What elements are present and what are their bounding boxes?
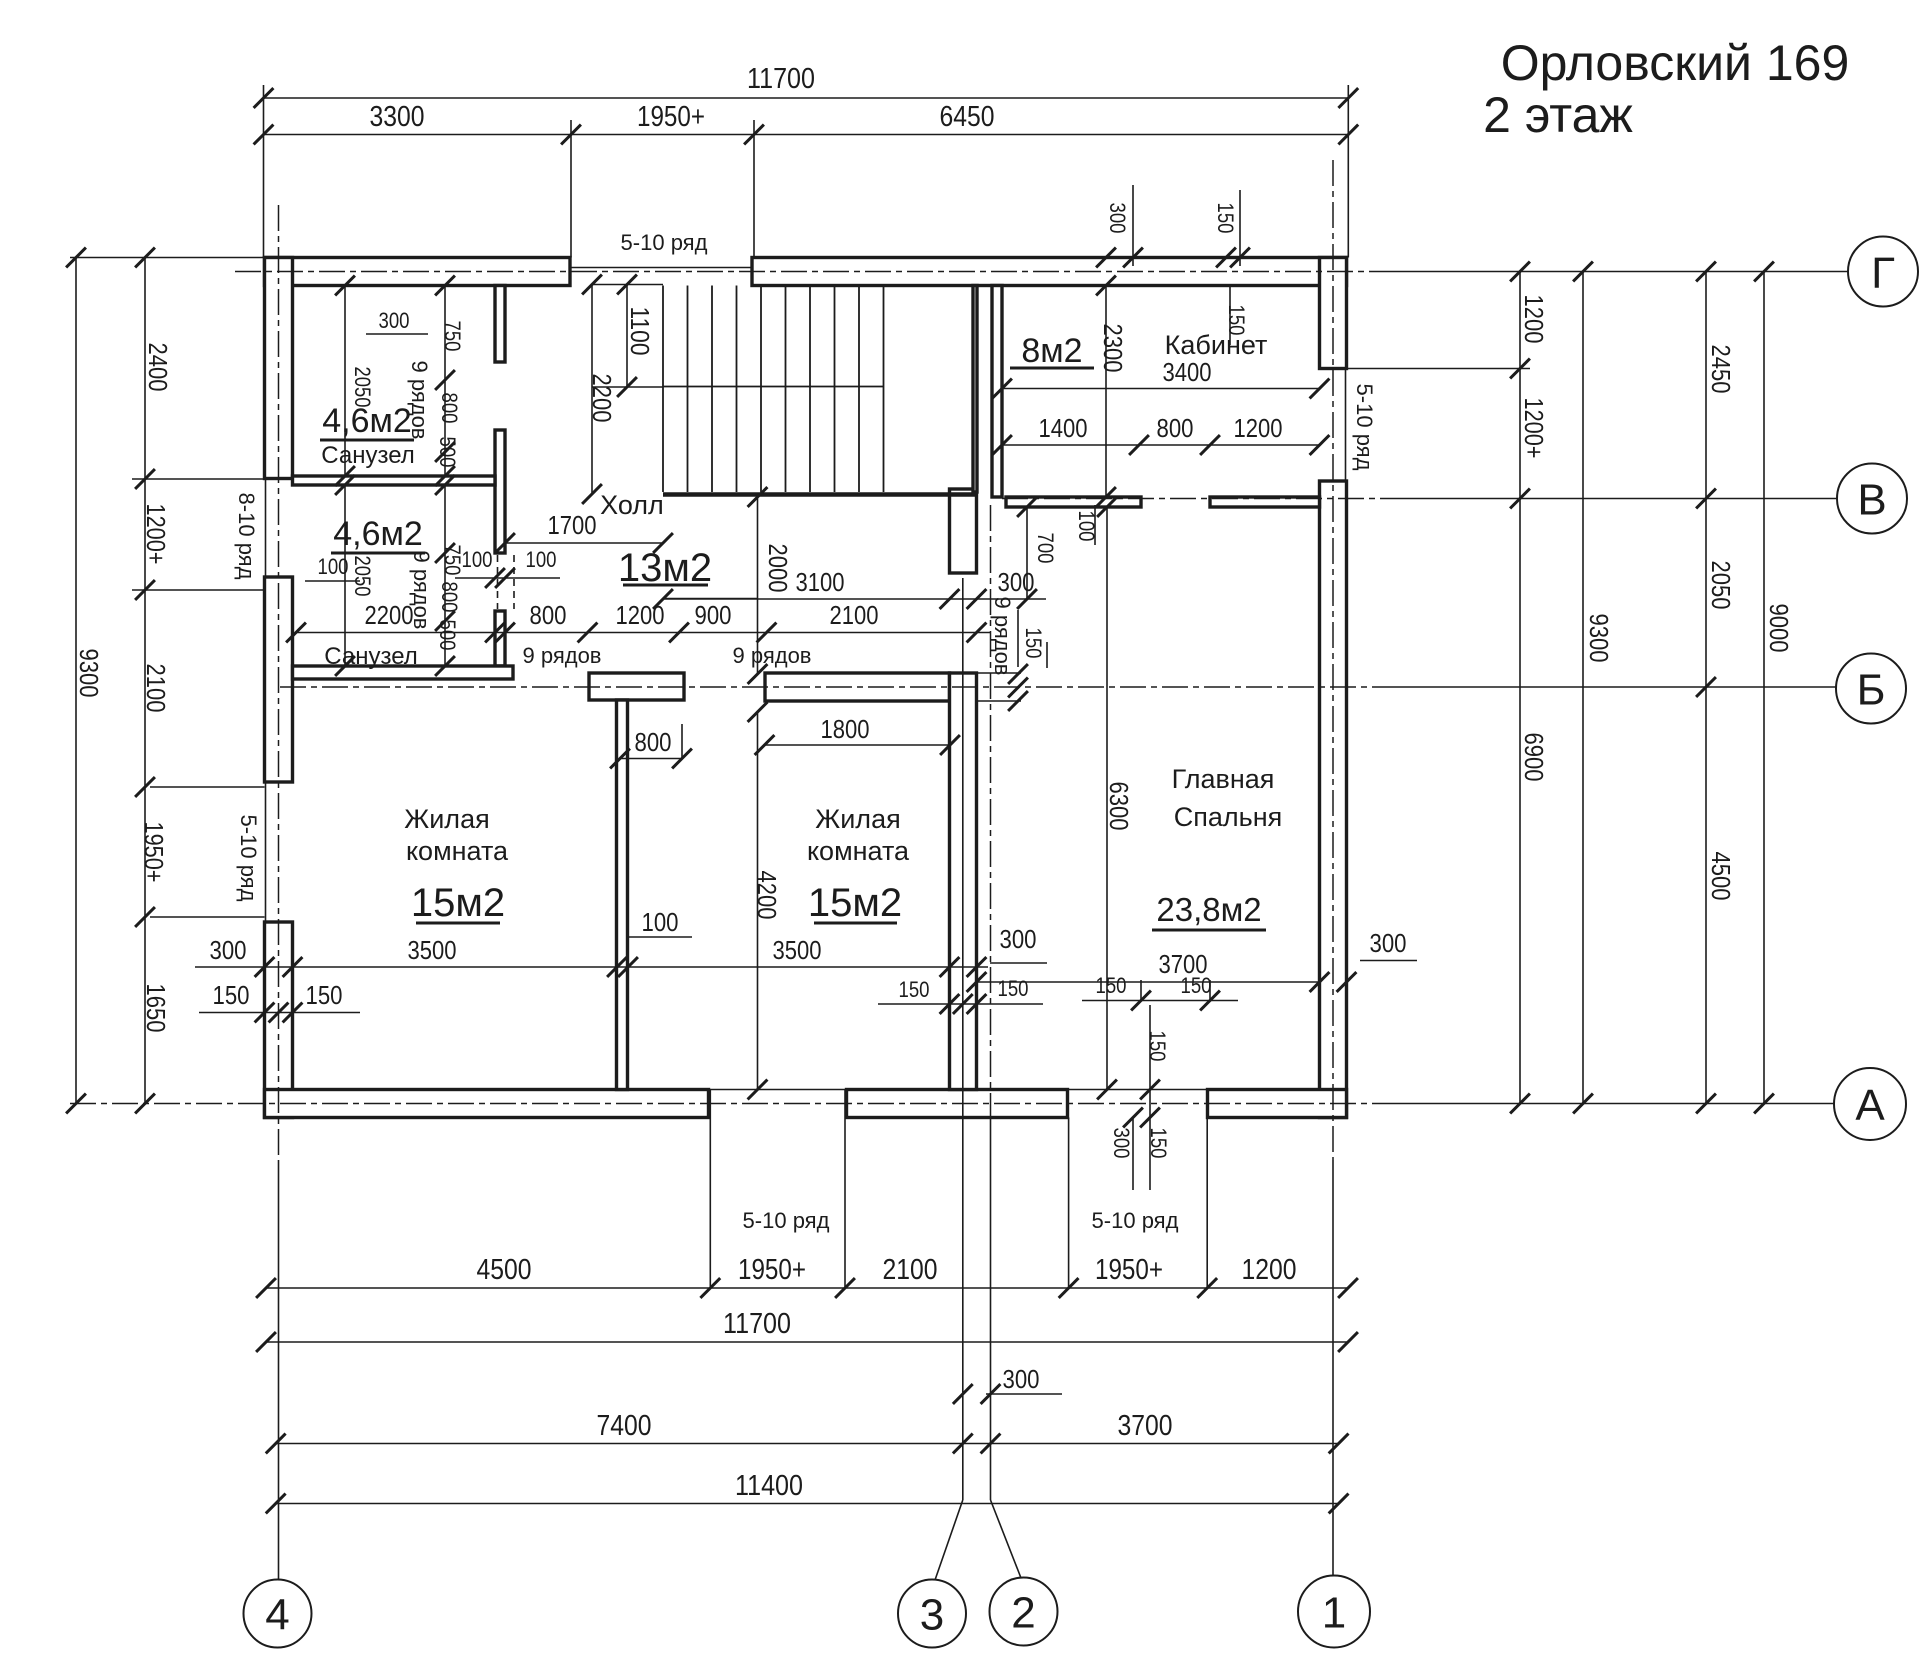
svg-text:2400: 2400	[143, 343, 173, 392]
svg-text:6450: 6450	[940, 101, 995, 133]
svg-text:Жилая: Жилая	[815, 804, 900, 834]
svg-text:1950+: 1950+	[637, 101, 705, 133]
svg-text:3100: 3100	[796, 567, 845, 597]
ticks at corridor door right of wall M	[1008, 664, 1028, 711]
dimension column 9000 right	[1754, 262, 1794, 1114]
dimension 750 lower bathroom door	[440, 545, 465, 576]
dimension 300 rotated below bottom wall	[1109, 1108, 1143, 1190]
svg-text:А: А	[1855, 1081, 1885, 1130]
svg-text:1200+: 1200+	[141, 504, 171, 565]
svg-text:4: 4	[265, 1591, 289, 1640]
window left wall lower	[265, 782, 267, 922]
extension line right 368	[1347, 368, 1531, 370]
wall cabinet bottom left segment	[1006, 497, 1141, 507]
label area 4,6м2 upper bathroom	[320, 402, 414, 440]
dimension row 7400 3700	[266, 1410, 1349, 1453]
svg-text:2050: 2050	[350, 556, 375, 597]
svg-text:100: 100	[642, 907, 679, 937]
svg-text:2100: 2100	[141, 664, 171, 713]
wall outer top-left segment	[265, 258, 571, 286]
svg-text:Кабинет: Кабинет	[1165, 330, 1268, 360]
dimension line bathroom column lower	[435, 475, 455, 676]
wall cabinet left	[992, 286, 1002, 498]
label комната room 1	[406, 836, 509, 866]
svg-text:4500: 4500	[477, 1254, 532, 1286]
svg-text:Холл: Холл	[600, 490, 664, 520]
label 5-10 ряд right	[1352, 384, 1377, 471]
svg-text:3500: 3500	[773, 935, 822, 965]
svg-text:150: 150	[899, 977, 930, 1002]
svg-text:2300: 2300	[1098, 324, 1128, 373]
svg-text:150: 150	[1146, 1128, 1171, 1159]
window top wall	[570, 267, 752, 269]
dimension row 3300 1950+ 6450	[254, 101, 1359, 144]
svg-text:1700: 1700	[548, 510, 597, 540]
svg-text:750: 750	[440, 321, 465, 352]
extension line bottom window left a	[709, 1090, 711, 1289]
label Холл	[600, 490, 664, 520]
svg-text:800: 800	[437, 393, 462, 424]
svg-text:800: 800	[437, 582, 462, 613]
axis leader to circle 2	[991, 1500, 1022, 1578]
wall outer left middle segment	[265, 577, 293, 782]
wall outer right lower segment	[1320, 481, 1347, 1118]
svg-text:3300: 3300	[370, 101, 425, 133]
dimension 800 room 2 door	[610, 724, 692, 768]
svg-text:комната: комната	[807, 836, 910, 866]
axis line 1 vertical dash-dot	[1332, 160, 1334, 1575]
dimension line bathroom column upper	[435, 276, 455, 486]
dimension 150 150 room 1 bottom	[199, 980, 360, 1022]
svg-text:5-10 ряд: 5-10 ряд	[1092, 1208, 1179, 1233]
label 150 rotated right of wall M	[1021, 628, 1047, 669]
dimension column 1200 1200+ 6900	[1510, 262, 1549, 1114]
dimension 750 upper bathroom door	[440, 321, 465, 352]
svg-text:150: 150	[1021, 628, 1046, 659]
svg-text:2100: 2100	[883, 1254, 938, 1286]
dimension column 9300 left	[66, 248, 104, 1114]
dimension 100 stem wall	[627, 907, 692, 937]
svg-text:Орловский 169: Орловский 169	[1501, 35, 1850, 91]
dimension 150 150 bedroom door	[1082, 973, 1238, 1010]
axis circle 4	[244, 1580, 312, 1648]
svg-text:500: 500	[435, 437, 460, 468]
svg-text:2450: 2450	[1706, 345, 1736, 394]
wall stairwell right	[973, 286, 977, 493]
wall between bathrooms	[293, 476, 496, 485]
extension line top-left corner	[263, 85, 265, 258]
svg-text:5-10 ряд: 5-10 ряд	[236, 815, 261, 902]
svg-text:8-10 ряд: 8-10 ряд	[234, 493, 259, 580]
extension line bottom window left b	[844, 1090, 846, 1289]
svg-text:1200+: 1200+	[1519, 398, 1549, 459]
label area 15м2 room 2	[808, 881, 902, 925]
dimension 150 above top wall	[1213, 190, 1250, 267]
svg-text:Б: Б	[1857, 666, 1886, 715]
wall outer bottom-right segment	[1208, 1090, 1347, 1118]
axis leader to circle 3	[935, 1500, 963, 1580]
window bottom wall left	[709, 1089, 847, 1091]
svg-text:В: В	[1857, 476, 1886, 525]
wall bathroom right upper segment	[495, 286, 505, 363]
label Главная	[1172, 764, 1275, 794]
label Санузел upper	[321, 442, 415, 469]
svg-text:100: 100	[526, 547, 557, 572]
label 9 рядов lower	[409, 550, 434, 629]
dimension 1800 room 2 top	[755, 714, 960, 755]
svg-text:100: 100	[462, 547, 493, 572]
svg-text:3500: 3500	[408, 935, 457, 965]
window right wall	[1345, 369, 1347, 482]
svg-text:1200: 1200	[1242, 1254, 1297, 1286]
svg-text:5-10 ряд: 5-10 ряд	[743, 1208, 830, 1233]
svg-text:11400: 11400	[735, 1470, 803, 1502]
svg-text:300: 300	[379, 308, 410, 333]
svg-text:Главная: Главная	[1172, 764, 1275, 794]
label area 4,6м2 lower bathroom	[331, 515, 425, 553]
svg-text:8м2: 8м2	[1021, 332, 1082, 370]
extension line left 787	[150, 786, 265, 788]
dimension 100 100 at bathroom door	[455, 547, 560, 588]
axis line 2 vertical dash-dot	[990, 505, 992, 1500]
dimension 150 inside cabinet	[1224, 286, 1249, 346]
dimension column 2450 2050 4500	[1696, 262, 1736, 1114]
label area 8м2 cabinet	[1010, 332, 1094, 370]
dimension 1700 hall	[495, 510, 673, 553]
wall stem between living rooms	[617, 700, 628, 1090]
wall bathroom-2 bottom	[293, 666, 514, 679]
svg-text:1100: 1100	[625, 307, 655, 356]
dimension line rooms 3500 row	[195, 957, 988, 977]
wall corridor edge extension right of wall M	[977, 673, 1022, 701]
wall bathroom right middle segment	[495, 430, 505, 553]
dimension 150 rotated bedroom bottom	[1140, 1005, 1170, 1190]
axis circle 1	[1298, 1576, 1370, 1648]
extension line bottom window right a	[1068, 1118, 1070, 1289]
svg-text:комната: комната	[406, 836, 509, 866]
svg-text:Санузел: Санузел	[324, 643, 418, 670]
axis line 4 vertical dash-dot	[278, 205, 280, 1579]
extension line left 590	[132, 589, 265, 591]
wall outer left lower segment	[265, 922, 293, 1118]
svg-text:2100: 2100	[830, 600, 879, 630]
dimension 2050 lower bathroom	[335, 475, 375, 676]
window left wall upper	[265, 479, 267, 578]
svg-text:300: 300	[1370, 928, 1407, 958]
wall stairs bottom	[663, 492, 977, 497]
dimension 4200 room 2 vertical	[748, 702, 782, 1099]
label area 23,8м2 bedroom	[1152, 891, 1266, 930]
dimension 1100 stairs	[617, 275, 655, 397]
dimension 300 bedroom left	[990, 924, 1047, 963]
svg-text:1200: 1200	[1234, 413, 1283, 443]
svg-text:9 рядов: 9 рядов	[522, 643, 601, 668]
label area 13м2 hall	[618, 546, 712, 590]
svg-text:300: 300	[998, 567, 1035, 597]
window bottom wall right	[1068, 1089, 1208, 1091]
dimension 2000 hall vertical	[663, 487, 793, 684]
extension line top window left	[570, 120, 572, 258]
svg-text:100: 100	[318, 554, 349, 579]
dimension 1400 800 1200 cabinet	[992, 413, 1329, 455]
axis circle В	[1837, 464, 1907, 534]
dimension 300 in upper bathroom	[366, 308, 428, 334]
title 2 этаж	[1483, 87, 1633, 143]
svg-text:2000: 2000	[763, 544, 793, 593]
wall T-chunk at hall	[589, 673, 684, 700]
extension line top-right corner	[1347, 85, 1349, 258]
svg-text:2050: 2050	[1706, 561, 1736, 610]
svg-text:9300: 9300	[1584, 614, 1614, 663]
dimension 3700 bedroom	[967, 949, 1357, 992]
label 5-10 ряд left	[236, 815, 261, 902]
svg-text:150: 150	[998, 976, 1029, 1001]
svg-text:7400: 7400	[597, 1410, 652, 1442]
axis circle А	[1834, 1068, 1906, 1140]
svg-text:5-10 ряд: 5-10 ряд	[1352, 384, 1377, 471]
axis line 3 vertical extension	[962, 578, 964, 1500]
svg-text:3400: 3400	[1163, 357, 1212, 387]
dimension row 2200 800 1200 900 2100 hall	[286, 600, 991, 642]
wall cabinet bottom right segment	[1210, 497, 1320, 507]
extension line left 917	[150, 916, 265, 918]
axis line Б horizontal dash-dot	[280, 686, 1836, 688]
svg-text:9 рядов: 9 рядов	[990, 596, 1015, 675]
svg-text:4,6м2: 4,6м2	[322, 402, 412, 440]
svg-text:1800: 1800	[821, 714, 870, 744]
svg-text:2 этаж: 2 этаж	[1483, 87, 1633, 143]
dimension 300 bedroom right	[1360, 928, 1417, 961]
svg-text:800: 800	[1157, 413, 1194, 443]
dimension 6300 bedroom vertical	[1097, 497, 1134, 1099]
svg-text:11700: 11700	[747, 63, 815, 95]
dimension 800 lower	[437, 582, 462, 613]
dimension 3500 room 1	[408, 935, 457, 965]
dimension 100 cabinet door	[1074, 505, 1099, 545]
door leaf dashes bathroom	[498, 555, 515, 609]
svg-text:23,8м2: 23,8м2	[1156, 891, 1261, 928]
svg-text:800: 800	[635, 727, 672, 757]
svg-text:1400: 1400	[1039, 413, 1088, 443]
wall outer right upper segment	[1320, 258, 1347, 369]
extension line bottom window right b	[1206, 1118, 1208, 1289]
wall outer left upper segment	[265, 258, 293, 479]
svg-text:900: 900	[695, 600, 732, 630]
svg-text:3700: 3700	[1118, 1410, 1173, 1442]
label 5-10 ряд bottom right	[1092, 1208, 1179, 1233]
label 9 рядов rotated right of wall M	[990, 596, 1018, 675]
svg-text:300: 300	[1105, 203, 1130, 234]
svg-text:1: 1	[1322, 1589, 1346, 1638]
dimension 2300 cabinet vertical	[1096, 276, 1128, 507]
axis line В horizontal dash-dot	[1002, 498, 1837, 500]
wall outer top-right segment	[752, 258, 1347, 286]
dimension 100 between bathrooms	[305, 554, 360, 581]
svg-text:1950+: 1950+	[738, 1254, 806, 1286]
svg-text:6900: 6900	[1519, 733, 1549, 782]
dimension 3400 cabinet	[992, 357, 1329, 398]
dimension 2200 bathroom width	[365, 600, 414, 630]
svg-text:13м2: 13м2	[618, 546, 712, 590]
dimension 700 cabinet door	[1033, 533, 1058, 564]
dimension 500 lower	[435, 620, 460, 651]
svg-text:1950+: 1950+	[139, 822, 169, 883]
axis circle Г	[1848, 237, 1918, 307]
dimension 2200 stairs	[582, 275, 617, 504]
wall middle upper chunk	[950, 489, 977, 573]
label area 15м2 room 1	[411, 881, 505, 925]
svg-text:9300: 9300	[74, 649, 104, 698]
svg-text:9 рядов: 9 рядов	[732, 643, 811, 668]
label Кабинет	[1165, 330, 1268, 360]
wall bathroom right lower segment	[495, 611, 505, 666]
label 9 рядов hall right	[732, 643, 811, 668]
dimension column 2400 1200+ 2100 1950+ 1650	[135, 248, 173, 1114]
label 150 rotated below bottom wall	[1146, 1128, 1171, 1159]
svg-text:150: 150	[306, 980, 343, 1010]
svg-text:4500: 4500	[1706, 852, 1736, 901]
dimension 300 above top wall	[1096, 185, 1143, 267]
svg-text:9000: 9000	[1764, 604, 1794, 653]
extension line left top	[70, 257, 265, 259]
wall outer bottom-left segment	[265, 1090, 709, 1118]
svg-text:9 рядов: 9 рядов	[407, 360, 432, 439]
extension line left 479	[132, 478, 265, 480]
svg-text:150: 150	[1181, 973, 1212, 998]
extension line stairs divider	[592, 386, 663, 388]
svg-text:Санузел: Санузел	[321, 442, 415, 469]
axis circle 2	[990, 1578, 1058, 1646]
label комната room 2	[807, 836, 910, 866]
dimension 300 room 1	[210, 935, 247, 965]
label Санузел lower	[324, 643, 418, 670]
axis line А horizontal dash-dot	[70, 1103, 1834, 1105]
svg-text:Спальня: Спальня	[1174, 802, 1283, 832]
svg-text:300: 300	[1000, 924, 1037, 954]
dimension 2050 upper bathroom	[335, 276, 375, 486]
stairs treads and flight divider	[663, 286, 884, 493]
svg-text:1200: 1200	[1519, 295, 1549, 344]
axis circle 3	[898, 1580, 966, 1648]
axis line Г horizontal dash-dot	[235, 271, 1848, 273]
svg-text:5-10 ряд: 5-10 ряд	[621, 230, 708, 255]
svg-text:Г: Г	[1871, 249, 1895, 298]
svg-text:2200: 2200	[365, 600, 414, 630]
svg-text:150: 150	[1213, 203, 1238, 234]
dimension 300 between axes 3 and 2	[953, 1364, 1062, 1404]
dimension row 11700 bottom	[256, 1308, 1358, 1352]
svg-text:1650: 1650	[141, 984, 171, 1033]
dimension row 11700 top	[254, 63, 1359, 108]
title Орловский 169	[1501, 35, 1850, 91]
extension line top window right	[753, 120, 755, 258]
dimension line cabinet door vertical	[1017, 497, 1037, 609]
svg-text:3: 3	[920, 1591, 944, 1640]
label Жилая room 1	[404, 804, 489, 834]
wall corridor right segment	[765, 673, 950, 701]
svg-text:800: 800	[530, 600, 567, 630]
svg-text:4200: 4200	[752, 871, 782, 920]
wall outer bottom-middle segment	[847, 1090, 1068, 1118]
svg-text:4,6м2: 4,6м2	[333, 515, 423, 553]
dimension 800 upper	[437, 393, 462, 424]
label 9 рядов upper	[407, 360, 432, 439]
axis circle Б	[1836, 654, 1906, 724]
label 5-10 ряд top	[621, 230, 708, 255]
dimension row 11400	[266, 1470, 1349, 1513]
svg-text:2: 2	[1011, 1589, 1035, 1638]
svg-text:700: 700	[1033, 533, 1058, 564]
svg-text:150: 150	[1224, 305, 1249, 336]
svg-text:Жилая: Жилая	[404, 804, 489, 834]
svg-text:150: 150	[213, 980, 250, 1010]
svg-text:15м2: 15м2	[411, 881, 505, 925]
label 5-10 ряд bottom left	[743, 1208, 830, 1233]
svg-text:1950+: 1950+	[1095, 1254, 1163, 1286]
dimension row 4500 1950+ 2100 1950+ 1200	[256, 1254, 1358, 1298]
dimension 3500 room 2	[773, 935, 822, 965]
dimension 3100 and 300 at wall M	[653, 567, 1046, 609]
wall middle lower between room and bedroom	[950, 673, 977, 1090]
svg-text:150: 150	[1096, 973, 1127, 998]
dimension 500 upper	[435, 437, 460, 468]
svg-text:500: 500	[435, 620, 460, 651]
svg-text:300: 300	[1109, 1128, 1134, 1159]
svg-text:2050: 2050	[350, 367, 375, 408]
svg-text:2200: 2200	[587, 374, 617, 423]
label 9 рядов hall left	[522, 643, 601, 668]
svg-text:15м2: 15м2	[808, 881, 902, 925]
svg-text:300: 300	[210, 935, 247, 965]
svg-text:150: 150	[1145, 1031, 1170, 1062]
svg-text:6300: 6300	[1104, 782, 1134, 831]
svg-text:300: 300	[1003, 1364, 1040, 1394]
label Спальня	[1174, 802, 1283, 832]
dimension 150 150 room 2 bottom	[878, 976, 1043, 1014]
dimension column 9300 right	[1573, 262, 1614, 1114]
svg-text:11700: 11700	[723, 1308, 791, 1340]
extension line stairs top	[592, 284, 663, 286]
label 8-10 ряд left	[234, 493, 259, 580]
label Жилая room 2	[815, 804, 900, 834]
